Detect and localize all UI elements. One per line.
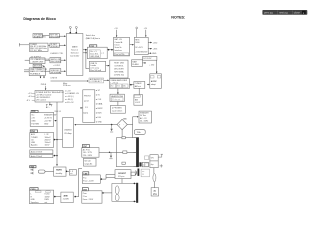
box M2 interface	[114, 37, 130, 56]
dark mark right of T	[135, 171, 138, 175]
dark blob at bar bottom	[139, 162, 141, 166]
svg-text:AC Prim: AC Prim	[83, 149, 90, 152]
svg-text:standby: standby	[56, 172, 63, 175]
box N2 decoder	[110, 60, 128, 78]
svg-text:+ 5V0: + 5V0	[149, 65, 154, 67]
svg-text:Diagrama de Bloco: Diagrama de Bloco	[23, 17, 56, 21]
svg-text:Prim: Prim	[83, 192, 87, 195]
M3 out arrows + labels	[148, 42, 151, 44]
wire M2-M3	[130, 44, 134, 46]
node G out	[54, 139, 56, 141]
svg-text:= x: = x	[101, 52, 104, 54]
svg-text:CN10: CN10	[31, 189, 36, 191]
svg-text:10mV: 10mV	[45, 145, 51, 147]
connector tab CN7	[82, 145, 89, 148]
svg-text:REG: REG	[135, 39, 140, 41]
wire Z1 down to Z4	[117, 88, 119, 94]
fuse F1	[153, 174, 156, 182]
box N1 loader connector	[89, 61, 105, 71]
node J out	[54, 196, 56, 198]
connector CN2 tab	[30, 130, 37, 133]
wire tuner-B2	[48, 44, 50, 46]
leads into D1	[24, 69, 29, 71]
bridge rectifier diamond	[117, 119, 127, 129]
box USB D1	[29, 68, 45, 76]
wire node down to N1	[86, 50, 90, 69]
svg-text:12 MHz Xtal: 12 MHz Xtal	[114, 73, 125, 76]
svg-text:◄ GND: ◄ GND	[95, 121, 102, 124]
fuse drop below node	[111, 125, 113, 129]
svg-text:AC/DC: AC/DC	[151, 80, 158, 83]
svg-text:50 - 60Hz: 50 - 60Hz	[140, 120, 148, 122]
display left label a	[145, 156, 149, 160]
svg-text:ST. 10.7 MHz: ST. 10.7 MHz	[30, 50, 42, 52]
wire D2-MCU	[61, 70, 66, 72]
node I out	[66, 171, 68, 173]
box USB decoder D2	[50, 69, 61, 74]
svg-text:Fase - 220V: Fase - 220V	[83, 199, 94, 201]
svg-text:HOST USB: HOST USB	[114, 62, 124, 64]
svg-text:POWER SUPPLY REGULATOR: POWER SUPPLY REGULATOR	[36, 91, 64, 94]
connector table J	[29, 190, 53, 204]
box Q TDA	[134, 130, 145, 135]
svg-text:GND SDA: GND SDA	[90, 55, 99, 58]
svg-text:CN7: CN7	[83, 146, 87, 148]
amplifier box W LM4863	[63, 118, 74, 148]
svg-text:3V +3V3: 3V +3V3	[135, 47, 142, 49]
svg-text:NOTES:: NOTES:	[171, 16, 185, 20]
svg-text:SW2: SW2	[30, 167, 34, 169]
svg-text:Control A: Control A	[115, 41, 124, 44]
box O adaptor	[150, 74, 162, 89]
svg-text:Interface: Interface	[115, 49, 122, 52]
lead into C1	[25, 59, 30, 61]
svg-text:+-5 VDC: +-5 VDC	[53, 65, 61, 67]
wire Z2-Z3	[138, 88, 140, 94]
wire M1-M2	[107, 49, 113, 51]
label switch lines	[86, 34, 100, 40]
svg-text:BAT +5V: BAT +5V	[115, 38, 123, 41]
node on T1 feed	[109, 152, 110, 153]
wire X left stub arrow	[80, 107, 83, 109]
fuse on T1 bottom edge	[122, 162, 125, 164]
wire C1b diag	[42, 65, 45, 68]
svg-text:Source: Source	[71, 48, 79, 51]
svg-text:AM ant: AM ant	[135, 85, 141, 88]
svg-text:MP3/WMA: MP3/WMA	[51, 71, 61, 74]
wire diamond left to amp W	[75, 124, 117, 126]
svg-text:+5V MCU Control: +5V MCU Control	[36, 94, 52, 97]
svg-text:Sel volt: Sel volt	[84, 159, 91, 162]
wire line-in to aux box	[51, 80, 89, 82]
node on diamond wire	[111, 124, 113, 126]
signal label column right of X	[95, 89, 103, 124]
wire AB-Z1	[104, 79, 109, 81]
svg-text:◄ +8V (L): ◄ +8V (L)	[65, 95, 74, 98]
svg-text:◄ +5V: ◄ +5V	[65, 90, 72, 93]
svg-text:prev pg: prev pg	[264, 11, 273, 15]
box P standby supply	[139, 111, 151, 123]
svg-text:close: close	[294, 11, 301, 15]
svg-text:D1S: D1S	[123, 119, 126, 121]
svg-text:2x20W: 2x20W	[63, 199, 69, 201]
fuse drop on T1 feed	[110, 152, 112, 155]
wire into T1 mid from Y	[99, 151, 116, 153]
wire MCU-M1 second	[83, 52, 87, 54]
svg-text:Audio 170mV: Audio 170mV	[31, 151, 43, 154]
box Z2	[134, 82, 145, 89]
amp box L 40W	[61, 192, 73, 203]
svg-text:MP3 WMA: MP3 WMA	[114, 70, 124, 73]
box Z1 tuner amp	[110, 79, 130, 89]
connector tab CN8	[83, 172, 89, 175]
svg-text:Agudos: Agudos	[31, 144, 37, 147]
MCU top pin +5V	[69, 26, 71, 33]
svg-text:● PHONES: ● PHONES	[112, 108, 122, 110]
box Z3 am loop	[134, 95, 143, 106]
svg-text:100W: 100W	[45, 196, 50, 198]
wire L up to V0	[76, 168, 82, 196]
speaker icons	[31, 168, 34, 174]
svg-text:◄ CLK: ◄ CLK	[95, 98, 102, 101]
display left label b	[145, 163, 149, 167]
svg-text:L: L	[31, 194, 32, 196]
svg-text:PCB ass: PCB ass	[63, 85, 71, 87]
MCU top pin +3V3	[75, 26, 77, 33]
svg-text:CN5: CN5	[90, 46, 94, 48]
svg-text:DC IN 9V: DC IN 9V	[143, 58, 152, 60]
rounded sw box	[38, 170, 45, 173]
T1 tap ticks	[133, 138, 136, 167]
svg-text:Driver: Driver	[115, 44, 120, 47]
svg-text:Switch line: Switch line	[86, 34, 95, 37]
box aux input AB	[89, 78, 104, 83]
box M1 body	[87, 47, 107, 59]
svg-text:Selector: Selector	[71, 51, 79, 54]
box servo C2	[50, 58, 61, 63]
svg-text:+ LASER UNIT: + LASER UNIT	[30, 60, 44, 63]
svg-text:MOSFET: MOSFET	[118, 173, 127, 175]
box V0	[84, 158, 97, 166]
label main pcb	[63, 83, 71, 87]
node V1 out	[101, 178, 103, 180]
svg-text:◄ LOADER +5V: ◄ LOADER +5V	[65, 92, 80, 95]
svg-text:◄ -8V (L): ◄ -8V (L)	[65, 98, 74, 101]
sub-box C1b motor	[33, 64, 42, 67]
box Z4 inner	[111, 98, 123, 101]
box W2a	[142, 162, 148, 167]
pin above M3	[136, 27, 138, 37]
box X front display bar	[83, 90, 95, 123]
svg-text:220 - 240V: 220 - 240V	[83, 155, 93, 157]
svg-text:HEADPHONE: HEADPHONE	[111, 95, 124, 98]
wire S down to T2	[121, 179, 123, 184]
box Z4	[110, 94, 124, 101]
svg-text:next pg: next pg	[279, 11, 288, 15]
box key decoder row A2	[49, 34, 59, 38]
svg-text:5V00: 5V00	[135, 42, 139, 44]
box H1	[30, 150, 53, 154]
box V1 body	[82, 175, 100, 184]
svg-text:LM4863: LM4863	[64, 130, 72, 132]
box CD loader C1	[30, 58, 46, 64]
wire sw-mute	[45, 171, 54, 173]
wire display down to fuse	[153, 168, 155, 174]
svg-text:Fase - 220V: Fase - 220V	[83, 181, 94, 183]
svg-text:DECODER: DECODER	[50, 36, 60, 38]
wire Z1-Z2	[130, 84, 134, 86]
power box right output labels	[65, 90, 80, 104]
fuse on T1 top edge	[122, 137, 125, 139]
node H2 out / wire to bus	[54, 155, 56, 157]
wire D1-D2	[45, 70, 50, 72]
CN3 tab	[30, 188, 38, 191]
svg-text:LINE IN: LINE IN	[51, 77, 58, 79]
wire E down arrow	[49, 102, 51, 105]
wire diamond bottom to transformer	[121, 130, 123, 137]
svg-text:Fax: Fax	[83, 177, 86, 179]
box Y body	[82, 148, 99, 158]
wire DC box down to O	[156, 60, 158, 73]
wire C2-MCU	[61, 59, 66, 61]
connector tab CN9	[82, 188, 88, 191]
svg-text:PLAYBACK: PLAYBACK	[30, 72, 41, 75]
connector CN5 tab	[90, 45, 97, 47]
svg-text:MAIN: MAIN	[72, 45, 78, 48]
box N3	[132, 60, 143, 67]
T2 core bar	[136, 183, 138, 203]
svg-text:-8V Control: -8V Control	[36, 99, 46, 102]
svg-text:adapt: adapt	[151, 83, 156, 86]
svg-text:110 - 127V: 110 - 127V	[83, 152, 93, 154]
short core bar segment	[138, 169, 140, 176]
wire diamond right up to P	[127, 117, 138, 125]
wire fuse to AC plug	[153, 182, 155, 188]
box S thermal switch	[115, 170, 131, 179]
svg-text:40W: 40W	[64, 195, 68, 198]
svg-text:STANDBY: STANDBY	[140, 112, 150, 115]
box V2 body	[82, 191, 102, 203]
connector CN1 tab	[31, 110, 38, 112]
speaker switch tab SW2	[30, 166, 36, 168]
svg-text:disp: disp	[151, 164, 154, 166]
svg-text:TUNER: TUNER	[135, 83, 142, 85]
AC plug marks	[46, 104, 53, 106]
svg-text:Vcc: Vcc	[31, 114, 34, 116]
box M2 inner bottom	[114, 53, 129, 56]
MCU / source selector controller U100	[66, 34, 83, 76]
wire G-amp	[55, 139, 63, 141]
svg-text:1 8: 1 8	[85, 107, 88, 109]
svg-text:LOADER CTRL: LOADER CTRL	[50, 52, 63, 55]
svg-text:+3.3V 5V: +3.3V 5V	[44, 117, 53, 119]
T2 nodes	[134, 183, 136, 185]
box SW board row A1	[33, 34, 42, 38]
svg-text:CN1: CN1	[32, 111, 36, 113]
AC plug box	[151, 188, 159, 196]
wire A2-MCU	[59, 35, 65, 37]
svg-text:REG 3.3: REG 3.3	[55, 111, 62, 113]
viewer toolbar bar top-right	[262, 10, 307, 15]
svg-text:DECODER: DECODER	[51, 61, 61, 63]
wire O left arrow	[147, 84, 150, 86]
svg-text:VOL: VOL	[117, 86, 120, 88]
wire N3 +5V arrow	[143, 62, 146, 64]
svg-text:CD Amp: CD Amp	[64, 132, 72, 135]
svg-text:+5V SUPPLY: +5V SUPPLY	[30, 57, 42, 59]
svg-text:range AC: range AC	[84, 162, 93, 165]
svg-text:MUTE: MUTE	[56, 170, 62, 172]
connector table F	[30, 112, 53, 126]
box Z5	[110, 106, 125, 114]
svg-text:SW prim: SW prim	[118, 175, 125, 178]
node L out	[74, 196, 76, 198]
svg-text:panel: panel	[84, 100, 89, 102]
svg-text:◄ DIG: ◄ DIG	[95, 116, 101, 119]
svg-text:out: out	[45, 201, 48, 204]
power box left labels	[26, 93, 32, 102]
wire E to F via right, continues as bus down to mute	[56, 102, 58, 166]
wire J-L	[55, 196, 61, 198]
svg-text:Speakers: Speakers	[31, 201, 39, 204]
svg-text:+3V3: +3V3	[153, 49, 158, 51]
wire C1-C2	[45, 59, 50, 61]
box W2b	[141, 169, 149, 177]
transformer T1 core bar	[136, 137, 139, 167]
svg-text:STEREO: STEREO	[51, 46, 59, 48]
box K relay	[69, 170, 76, 176]
arrows below D1	[40, 76, 42, 78]
fuse on T1 mid line	[123, 151, 127, 154]
svg-text:Max 500 mA: Max 500 mA	[90, 69, 101, 72]
thin box DC in	[143, 56, 157, 60]
svg-text:CONTROL: CONTROL	[114, 65, 123, 67]
tuner IF box B2	[50, 43, 59, 47]
node V2 out	[102, 192, 104, 194]
wire +5V down into M3	[145, 30, 147, 37]
power supply box E	[35, 91, 63, 103]
svg-text:plug: plug	[153, 193, 157, 195]
svg-text:Jack 3.5mm: Jack 3.5mm	[112, 110, 123, 112]
svg-text:+5V0/GND/5V: +5V0/GND/5V	[135, 52, 148, 54]
svg-text:Controller: Controller	[70, 54, 80, 57]
box M3 regulator	[134, 37, 148, 54]
svg-text:STANDBY SW: STANDBY SW	[44, 113, 57, 116]
svg-text:◄ BUS: ◄ BUS	[95, 112, 102, 115]
svg-text:CN2: CN2	[31, 131, 35, 133]
svg-text:sec: sec	[142, 171, 145, 173]
box H2	[30, 154, 53, 157]
wire diamond right down	[132, 125, 134, 138]
svg-text:(MAX 2 A) line in: (MAX 2 A) line in	[86, 37, 100, 40]
tuner box	[29, 43, 48, 51]
svg-text:AM: AM	[135, 98, 138, 101]
svg-text:GND: GND	[44, 123, 49, 125]
svg-text:L / R SELECT: L / R SELECT	[90, 81, 103, 83]
svg-text:MOTOR: MOTOR	[34, 65, 42, 67]
svg-text:FRONT: FRONT	[84, 96, 91, 98]
svg-text:Audio 150mV: Audio 150mV	[31, 155, 43, 158]
wire B2-MCU	[59, 44, 65, 46]
transformer T1 primary loop	[116, 138, 136, 167]
antenna lead	[19, 43, 29, 47]
svg-text:Out 5v/7Pb: Out 5v/7Pb	[115, 53, 124, 56]
svg-text:8 ohm: 8 ohm	[45, 194, 51, 196]
mute box I	[54, 167, 66, 176]
transformer T2 secondary	[112, 183, 136, 201]
wire A1-A2	[42, 35, 49, 37]
svg-text:◄ BUSY: ◄ BUSY	[95, 107, 103, 110]
box T small	[131, 172, 135, 176]
svg-text:DECODER: DECODER	[114, 68, 124, 70]
Z1 sub-boxes	[111, 84, 128, 88]
connector table G	[30, 133, 54, 148]
display right marks	[158, 154, 163, 167]
svg-text:GND: GND	[31, 120, 36, 122]
box M1 inner	[89, 50, 100, 58]
svg-text:RAM: RAM	[132, 61, 137, 64]
wire down into power box	[45, 86, 47, 90]
wire V2 to T2	[104, 192, 112, 194]
wire MCU-M1 with node	[83, 49, 88, 51]
wires V1 to S	[102, 175, 115, 180]
wire I-K	[67, 170, 69, 172]
wire +5V down to M2	[116, 30, 118, 37]
svg-text:FLASH: FLASH	[132, 63, 139, 66]
svg-text:◄ DATA: ◄ DATA	[95, 103, 103, 106]
svg-text:◄ FS +5V: ◄ FS +5V	[65, 101, 74, 104]
svg-text:◄ 5V: ◄ 5V	[95, 94, 100, 97]
svg-text:2 fus: 2 fus	[83, 196, 87, 198]
wire N1-N2	[106, 65, 110, 67]
svg-text:+5V0: +5V0	[153, 43, 158, 45]
svg-text:Serial In: Serial In	[115, 46, 122, 49]
wire Z4-Z5	[117, 102, 119, 106]
svg-text:P.DOWN: P.DOWN	[31, 123, 39, 125]
display module box	[150, 155, 158, 168]
svg-text:GND: GND	[152, 53, 157, 55]
svg-text:AC - 2V: AC - 2V	[140, 117, 147, 120]
svg-text:LOOP: LOOP	[135, 102, 141, 104]
svg-text:+12V 8V: +12V 8V	[44, 120, 52, 122]
